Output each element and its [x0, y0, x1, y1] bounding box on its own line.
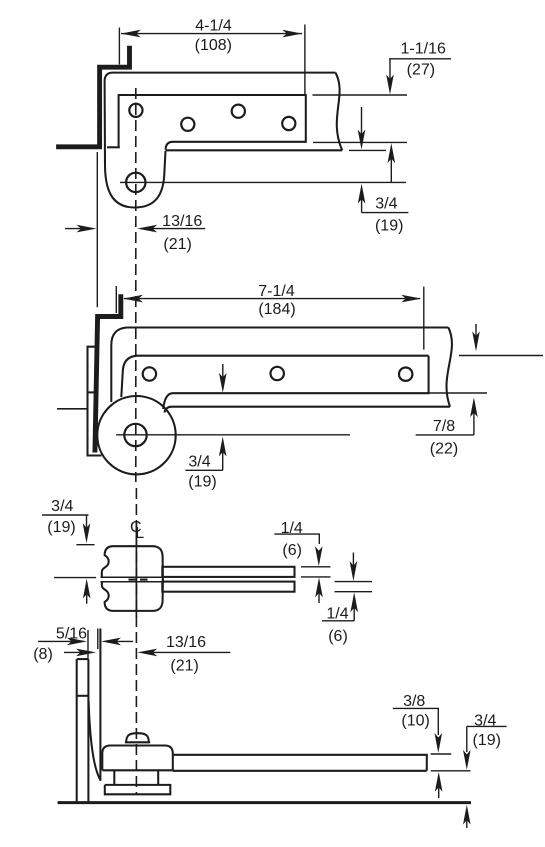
- lower bar down arrow: [352, 553, 354, 576]
- floor up arrow: [466, 809, 468, 828]
- svg-text:3/4: 3/4: [188, 454, 210, 471]
- wall sweep curve: [89, 701, 101, 780]
- arm top extension left: [54, 577, 96, 579]
- svg-text:(27): (27): [407, 61, 435, 78]
- svg-text:(22): (22): [430, 441, 458, 458]
- frame soffit line: [107, 146, 120, 148]
- floor line: [58, 801, 471, 804]
- arm bar side view: [173, 755, 427, 771]
- dim 3/4 leader: [42, 514, 88, 516]
- upper bar up arrow: [318, 583, 320, 604]
- dim 5/16 leader and right arrow: [38, 640, 81, 642]
- dim 13/16 text: [162, 213, 202, 253]
- door face line: [99, 629, 101, 781]
- pivot hole: [126, 173, 145, 192]
- dim 7-1/4 text: [258, 283, 295, 318]
- jamb outer edge: [76, 659, 78, 801]
- dim 1/4 (6) upper text: [281, 520, 303, 559]
- fillet body to leaf bottom: [166, 142, 173, 150]
- svg-text:(21): (21): [170, 657, 198, 674]
- upper bar ticks: [301, 566, 331, 568]
- screw hole A: [129, 104, 142, 117]
- block top extension: [76, 544, 94, 546]
- hidden arm end marks: [129, 579, 137, 581]
- door top edge: [111, 328, 448, 403]
- pivot disc: [97, 396, 175, 474]
- disc hole crosshair: [116, 434, 350, 436]
- leaf top extension right: [459, 355, 543, 357]
- stop face line: [97, 629, 99, 650]
- frame thick profile: [95, 294, 121, 452]
- svg-text:3/8: 3/8: [403, 693, 425, 710]
- dim 3/4 (19) text: [375, 196, 403, 235]
- dome base: [125, 741, 150, 743]
- pivot pin dome: [126, 733, 149, 742]
- dim 13/16 left arrow and leader: [143, 651, 230, 653]
- dim 3/4 arrow: [222, 441, 224, 470]
- door bottom edge: [166, 149, 343, 151]
- base plate: [105, 785, 171, 794]
- dim 3/8 leader + arrow: [393, 708, 439, 735]
- dim 1-1/16 text: [401, 41, 446, 79]
- cam block bottom: [102, 769, 173, 771]
- svg-text:(19): (19): [188, 474, 216, 491]
- dim 4-1/4 text: [195, 17, 232, 53]
- dim 3/4 leader: [185, 469, 222, 471]
- centerline (pivot axis, dashed): [135, 88, 138, 795]
- screw hole B: [181, 118, 194, 131]
- svg-text:1/4: 1/4: [326, 605, 348, 622]
- dim 7/8 text: [430, 418, 458, 458]
- dim 7-1/4 arrowheads: [123, 295, 421, 303]
- arm thickness up arrow: [438, 777, 440, 799]
- svg-text:(6): (6): [282, 542, 302, 559]
- dim 3/4 (19) text left: [47, 498, 75, 536]
- MIDDLE DRAWING: [57, 283, 543, 491]
- screw hole C: [232, 105, 245, 118]
- door bottom extension: [349, 149, 386, 151]
- dim 1/4 (6) lower text: [326, 605, 348, 645]
- arm up arrow left: [86, 583, 88, 604]
- svg-text:7/8: 7/8: [433, 418, 455, 435]
- svg-text:(19): (19): [472, 732, 500, 749]
- dim 5/16 (8) text: [33, 625, 87, 663]
- BOTTOM DRAWING: [33, 625, 506, 828]
- dim 4-1/4 lines: [119, 25, 305, 96]
- leaf bottom extension: [313, 141, 407, 143]
- dim 3/4 down arrow: [86, 515, 88, 538]
- upper arm bar: [162, 567, 294, 577]
- THIRD DRAWING: [42, 498, 372, 645]
- screw hole E: [143, 367, 156, 380]
- arrow to leaf bottom: [222, 364, 224, 388]
- dim 3/4 text: [188, 454, 216, 491]
- arm leaf right and bottom: [163, 356, 428, 409]
- door face left arrow: [107, 640, 133, 642]
- lower bar ticks: [335, 581, 373, 583]
- floor reference line: [57, 408, 87, 410]
- fillet disc to door bottom: [165, 407, 172, 413]
- dim 3/4 (19) text right: [472, 712, 500, 749]
- jamb joint: [77, 695, 89, 697]
- dim 13/16 (21) text: [166, 634, 206, 674]
- jamb face extension: [87, 630, 89, 659]
- svg-text:4-1/4: 4-1/4: [195, 17, 232, 34]
- arm leaf band top: [121, 356, 428, 397]
- svg-text:(184): (184): [258, 301, 295, 318]
- dim 1/4 (6) lower leader: [322, 620, 354, 622]
- jamb plate joint: [88, 391, 96, 393]
- svg-text:(108): (108): [195, 37, 232, 54]
- leaf bottom extension right: [427, 392, 487, 394]
- extension line from frame corner: [96, 152, 98, 307]
- dim 7/8 leader: [416, 434, 474, 436]
- jamb inner edge: [87, 659, 89, 801]
- door top edge: [112, 72, 336, 74]
- lower arm bar: [162, 582, 294, 592]
- svg-text:1-1/16: 1-1/16: [401, 41, 446, 58]
- pedestal: [114, 770, 158, 785]
- jamb top cap: [77, 658, 89, 660]
- arrow to door bottom: [361, 107, 363, 145]
- svg-text:13/16: 13/16: [162, 213, 202, 230]
- dim 7-1/4 lines: [116, 286, 424, 350]
- svg-text:3/4: 3/4: [375, 196, 397, 213]
- leaf top extension: [313, 94, 408, 96]
- arm bottom line: [173, 770, 427, 772]
- break line: [446, 328, 451, 407]
- slot gap lines through block: [101, 576, 163, 578]
- centerline solid through block: [135, 521, 137, 617]
- dim 13/16 arrows: [65, 228, 91, 230]
- TOP DRAWING: [56, 17, 451, 307]
- svg-text:7-1/4: 7-1/4: [258, 283, 295, 300]
- hinge leaf plate: [119, 95, 306, 148]
- dim 7/8 arrows: [475, 324, 477, 347]
- jamb plate: [88, 347, 102, 456]
- centerline symbol: [130, 519, 144, 542]
- dim 3/8 (10) text: [401, 693, 429, 729]
- screw hole F: [271, 367, 284, 380]
- pivot body outline: [105, 73, 166, 208]
- screw hole D: [282, 117, 295, 130]
- svg-text:(19): (19): [47, 519, 75, 536]
- door bottom edge: [172, 406, 451, 408]
- arrow up to leaf bottom: [390, 148, 392, 183]
- svg-text:(21): (21): [163, 236, 191, 253]
- svg-text:(10): (10): [401, 712, 429, 729]
- arm top extension: [431, 753, 452, 755]
- disc hole: [124, 424, 146, 446]
- svg-text:(6): (6): [328, 628, 348, 645]
- svg-text:(19): (19): [375, 218, 403, 235]
- lower bar up arrow: [353, 598, 355, 621]
- frame stop thick profile: [56, 46, 129, 147]
- dim 3/4 leader + arrow: [467, 726, 507, 752]
- arm bottom extension: [431, 770, 471, 772]
- dim 4-1/4 arrowheads: [121, 30, 302, 38]
- screw hole G: [399, 368, 412, 381]
- dim 1-1/16 leader and arrow: [389, 59, 451, 90]
- svg-text:3/4: 3/4: [51, 498, 73, 515]
- cam block: [102, 746, 173, 771]
- dim 1/4 upper leader: [274, 534, 319, 544]
- dim 3/4 leader and arrow: [361, 188, 363, 213]
- svg-text:(8): (8): [33, 646, 53, 663]
- svg-text:13/16: 13/16: [166, 634, 206, 651]
- break line: [336, 73, 343, 151]
- dim 13/16 lower right arrow: [64, 651, 90, 653]
- pivot block: [102, 546, 163, 611]
- pivot hole crosshair: [120, 181, 406, 183]
